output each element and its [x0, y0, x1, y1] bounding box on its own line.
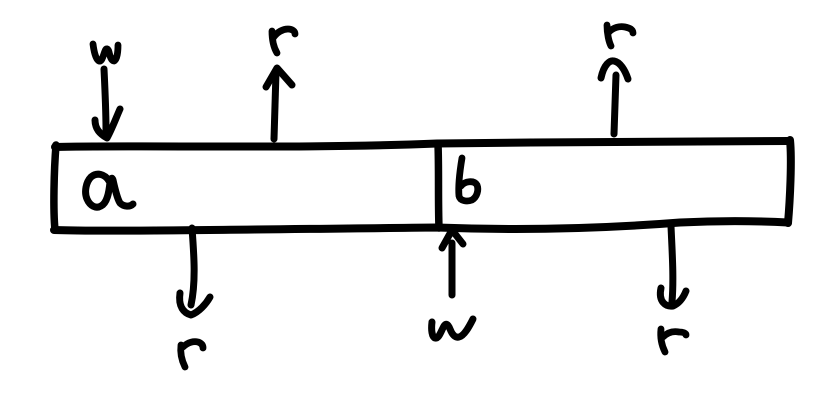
label r (top-middle) [272, 29, 295, 53]
label r (top-right) [607, 25, 633, 46]
node a label [86, 174, 133, 207]
arrow r read out of a (top-middle, pointing up) [266, 68, 292, 139]
arrow w write into a (top-left, pointing down) [95, 69, 120, 138]
arrow r read out of b (bottom-right, pointing down) [660, 226, 686, 306]
wire left edge [54, 145, 56, 230]
arrow r read out of a (bottom-left, pointing down) [180, 228, 210, 315]
arrow w write into b (bottom-middle, pointing up) [442, 230, 463, 295]
label r (bottom-left) [181, 342, 203, 367]
node b label [459, 158, 478, 201]
wire divider between a and b [438, 144, 439, 228]
arrow r read out of b (top-right, pointing up) [601, 61, 628, 134]
buffer box outline (segments a and b) [54, 140, 791, 231]
wire top edge [55, 141, 789, 147]
label r (bottom-right) [661, 329, 686, 352]
wire right edge [788, 140, 791, 223]
label w (top-left) [93, 44, 118, 61]
wire bottom edge [54, 221, 788, 230]
label w (bottom-middle) [432, 319, 473, 338]
